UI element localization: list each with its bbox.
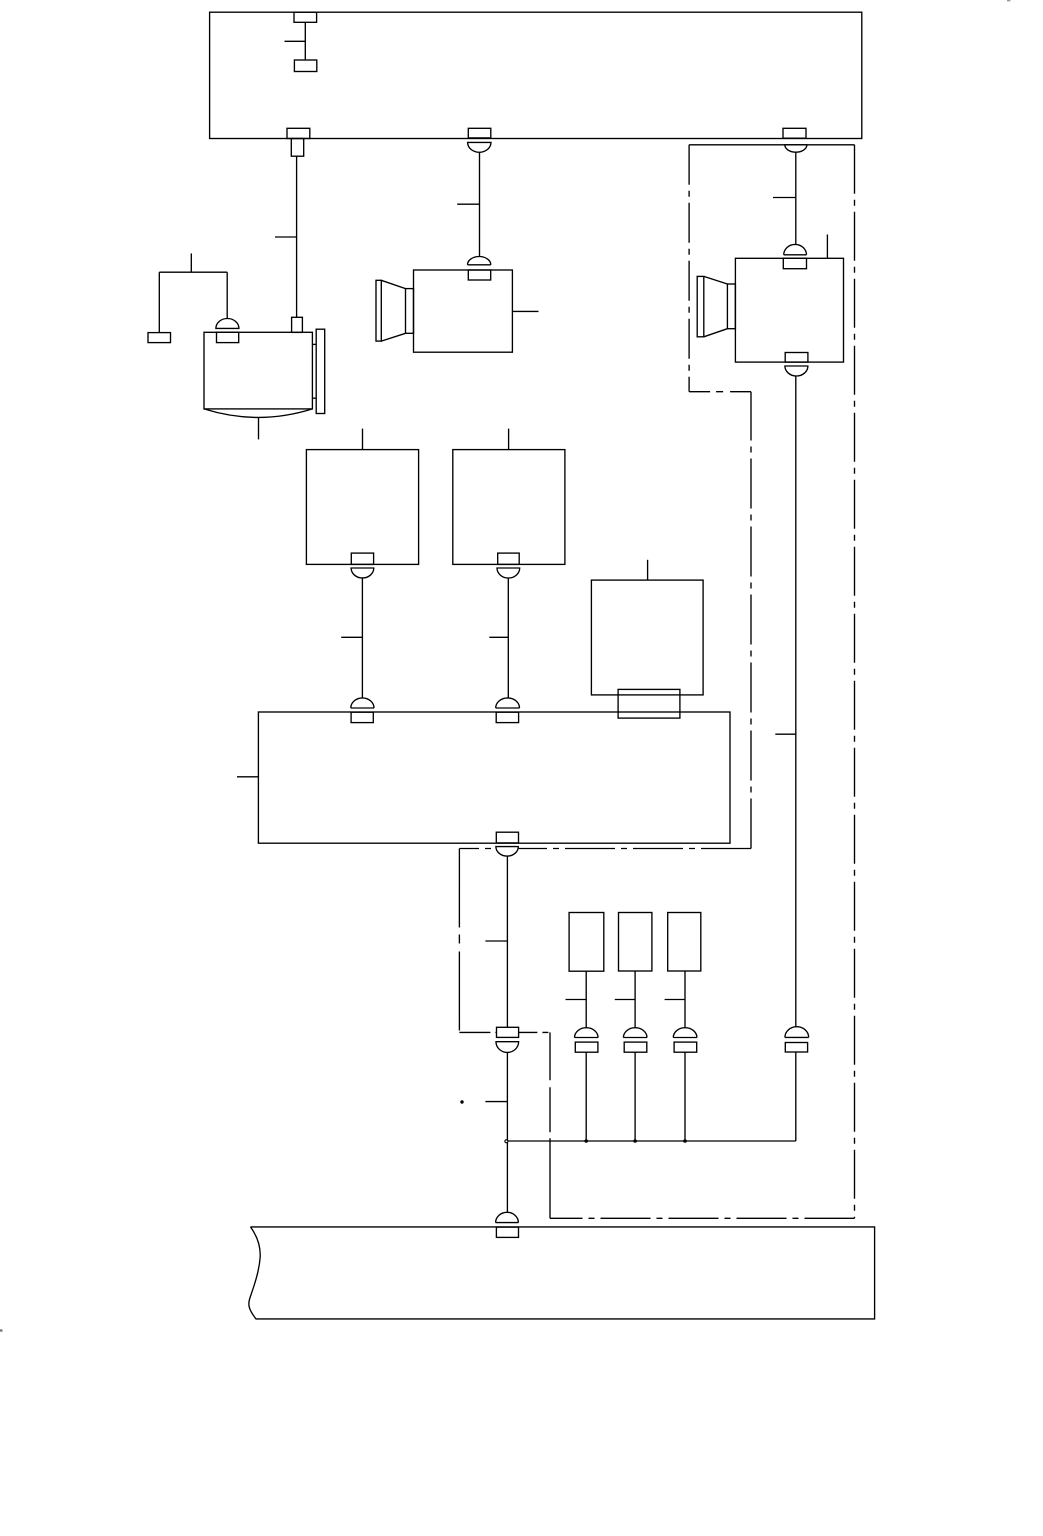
lamp 3 connector bbox=[673, 1028, 697, 1053]
lamp 2 connector bbox=[623, 1028, 647, 1052]
connector C (fuse box bottom right) bbox=[783, 128, 807, 152]
wire switch 1 to control box bbox=[341, 578, 362, 698]
battery lead bbox=[226, 272, 228, 319]
relay coupler block bbox=[618, 689, 680, 718]
horn R bbox=[735, 258, 843, 362]
control box dome 2 bbox=[496, 698, 520, 708]
wire horn R lower bbox=[795, 1052, 797, 1141]
relay bbox=[591, 580, 703, 695]
switch 2 bbox=[453, 450, 565, 565]
fuse box (top box) bbox=[210, 12, 862, 138]
wire lamp 2 bbox=[615, 971, 635, 1027]
harness boundary upper-left vertical (dash-dot) bbox=[688, 145, 690, 392]
control box (big box) bbox=[258, 712, 730, 843]
harness boundary mid-left vertical (dash-dot) bbox=[458, 849, 460, 1033]
horn R wire connector bbox=[785, 1027, 809, 1052]
junction dot 4 bbox=[683, 1139, 687, 1143]
harness boundary inner vertical (dash-dot) bbox=[750, 392, 752, 849]
connector B (fuse box bottom middle) bbox=[468, 128, 491, 152]
harness boundary bottom edge (dash-dot) bbox=[550, 1217, 855, 1219]
frame connector dome bbox=[496, 1212, 519, 1222]
harness boundary lower-left vertical (dash-dot) bbox=[549, 1032, 551, 1218]
page mark (top edge) bbox=[1007, 0, 1010, 1]
horn L trumpet bbox=[376, 280, 414, 341]
wire horn R down bbox=[775, 376, 796, 1027]
junction dot 2 bbox=[584, 1139, 588, 1143]
wire C down to horn R bbox=[773, 152, 796, 244]
control box dome 1 bbox=[351, 698, 374, 708]
battery side plate bbox=[312, 329, 324, 413]
horn R right stub bbox=[826, 235, 828, 259]
wire lamp 2 lower bbox=[634, 1052, 636, 1141]
ground bus bbox=[507, 1140, 795, 1142]
wire lamp 3 lower bbox=[684, 1052, 686, 1141]
horn R trumpet bbox=[697, 276, 735, 336]
fuse F1 bbox=[285, 12, 317, 71]
battery bbox=[204, 332, 312, 417]
relay top stub bbox=[647, 560, 649, 580]
horn R dome bbox=[784, 244, 807, 254]
horn L right stub bbox=[512, 310, 538, 312]
wire lamp 3 bbox=[665, 971, 685, 1027]
junction dot 3 bbox=[633, 1139, 637, 1143]
junction dot 1 bbox=[505, 1140, 508, 1143]
horn R bottom dome bbox=[785, 366, 808, 376]
battery connector dome bbox=[216, 319, 239, 329]
horn L dome bbox=[467, 257, 490, 265]
horn L bbox=[414, 270, 513, 352]
switch 1 top stub bbox=[362, 429, 364, 450]
control box left stub bbox=[237, 776, 258, 778]
switch 2 bottom dome bbox=[497, 568, 520, 578]
lamp 1 connector bbox=[575, 1028, 599, 1052]
control box bottom dome bbox=[496, 847, 518, 857]
wire lamp 1 bbox=[566, 971, 587, 1027]
lamp 1 bbox=[569, 913, 604, 972]
lamp 2 bbox=[619, 913, 652, 972]
switch 1 bbox=[306, 450, 418, 565]
frame (bottom box) bbox=[249, 1227, 875, 1319]
harness boundary upper step horizontal (dash-dot) bbox=[689, 391, 751, 393]
lamp 3 bbox=[668, 913, 701, 972]
connector A (fuse box bottom left) bbox=[287, 128, 310, 156]
ground lead (upper left) bbox=[159, 253, 227, 332]
wire A down to battery bbox=[275, 156, 302, 332]
wire B down to horn L bbox=[457, 152, 479, 256]
harness boundary right edge (dash-dot) bbox=[854, 145, 856, 1219]
harness boundary top edge (solid) bbox=[689, 144, 854, 146]
switch 1 bottom dome bbox=[351, 568, 374, 578]
ground terminal bbox=[148, 333, 171, 343]
wire lamp 1 lower bbox=[585, 1052, 587, 1141]
harness boundary mid horizontal (dash-dot) bbox=[459, 848, 751, 850]
main wire lower segment bbox=[485, 1053, 507, 1213]
wire switch 2 to control box bbox=[489, 578, 508, 698]
main wire connector bbox=[496, 1027, 519, 1052]
stray dot bbox=[460, 1100, 463, 1103]
page mark (left edge) bbox=[0, 1329, 3, 1331]
battery bottom wire bbox=[258, 417, 260, 439]
switch 2 top stub bbox=[508, 429, 510, 450]
main wire down bbox=[485, 856, 507, 1027]
harness boundary step horizontal (dash-dot) bbox=[459, 1031, 550, 1033]
